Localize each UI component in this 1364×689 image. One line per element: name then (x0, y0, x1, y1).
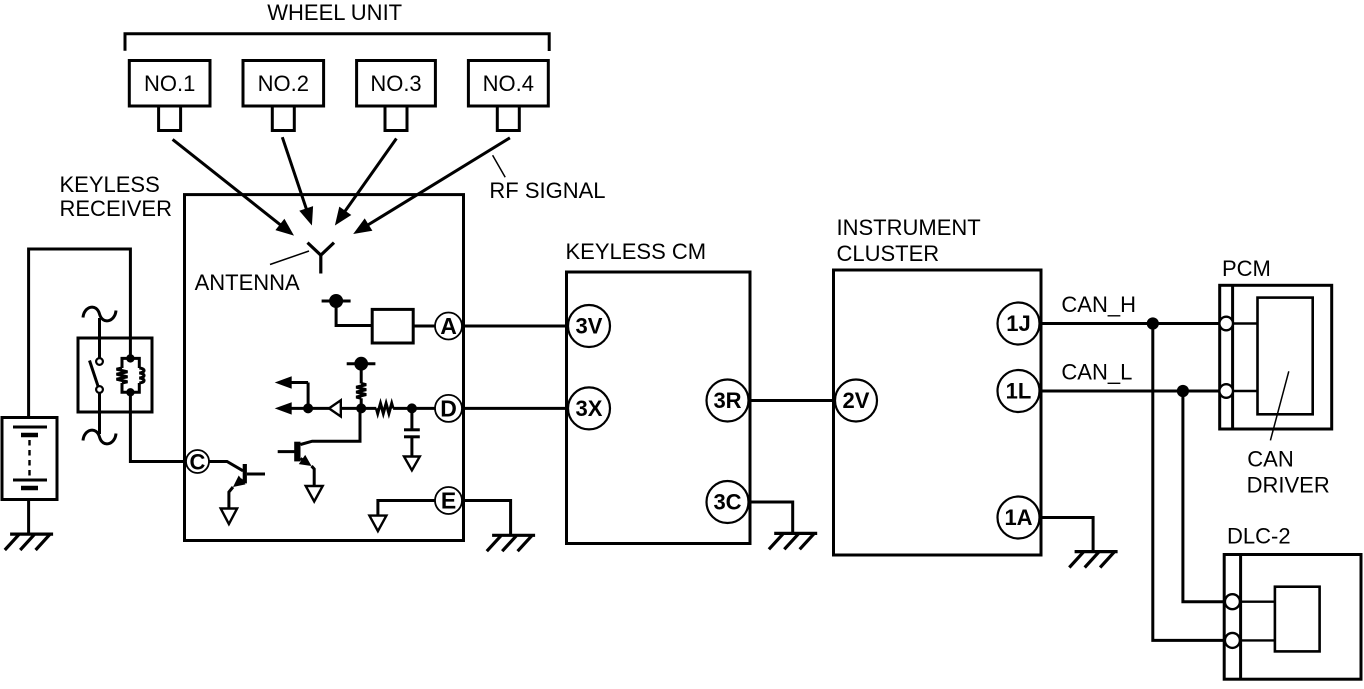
svg-text:PCM: PCM (1222, 256, 1271, 281)
svg-text:C: C (190, 449, 206, 474)
svg-text:RF SIGNAL: RF SIGNAL (489, 178, 605, 203)
svg-text:CAN_H: CAN_H (1061, 292, 1136, 317)
svg-text:1J: 1J (1006, 311, 1030, 336)
svg-text:WHEEL UNIT: WHEEL UNIT (267, 0, 402, 25)
svg-text:3X: 3X (576, 396, 603, 421)
svg-text:NO.1: NO.1 (144, 71, 195, 96)
svg-text:1A: 1A (1004, 505, 1032, 530)
svg-text:A: A (440, 313, 457, 339)
svg-text:3V: 3V (576, 314, 603, 339)
svg-text:3C: 3C (713, 490, 741, 515)
svg-text:INSTRUMENT: INSTRUMENT (837, 215, 981, 240)
svg-text:2V: 2V (843, 388, 870, 413)
svg-text:DRIVER: DRIVER (1247, 473, 1330, 498)
svg-text:E: E (441, 488, 456, 514)
svg-text:CLUSTER: CLUSTER (837, 241, 940, 266)
svg-text:CAN_L: CAN_L (1061, 360, 1132, 385)
svg-text:ANTENNA: ANTENNA (195, 270, 300, 295)
svg-text:NO.4: NO.4 (483, 71, 534, 96)
svg-text:RECEIVER: RECEIVER (60, 196, 172, 221)
svg-text:DLC-2: DLC-2 (1227, 524, 1291, 549)
svg-text:KEYLESS: KEYLESS (60, 172, 160, 197)
svg-text:1L: 1L (1006, 379, 1032, 404)
svg-text:NO.2: NO.2 (258, 71, 309, 96)
svg-text:KEYLESS CM: KEYLESS CM (566, 239, 707, 264)
svg-text:3R: 3R (713, 388, 741, 413)
svg-text:NO.3: NO.3 (370, 71, 421, 96)
svg-text:CAN: CAN (1247, 447, 1293, 472)
svg-text:D: D (440, 396, 457, 422)
